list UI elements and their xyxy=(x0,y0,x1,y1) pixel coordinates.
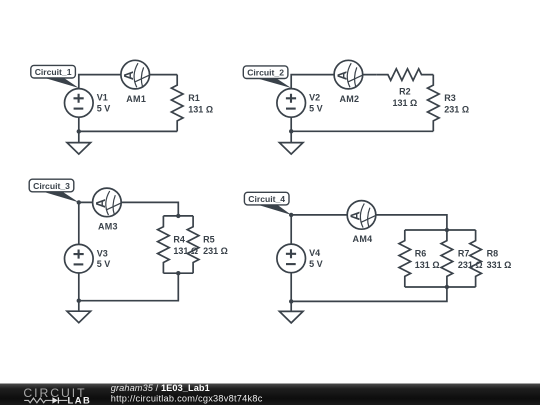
svg-text:AM4: AM4 xyxy=(353,234,373,244)
svg-text:V2: V2 xyxy=(309,93,320,103)
svg-text:231 Ω: 231 Ω xyxy=(203,246,228,256)
svg-text:R4: R4 xyxy=(173,235,185,245)
svg-text:Circuit_3: Circuit_3 xyxy=(33,181,70,191)
AM3 label xyxy=(98,222,118,232)
ground: circuit 2 xyxy=(279,131,303,154)
V4 labels: V4 5 V xyxy=(309,248,323,269)
resistor R8 xyxy=(470,230,482,287)
logo resistor zigzag and diode xyxy=(24,397,67,403)
svg-text:R5: R5 xyxy=(203,235,215,245)
V3 labels: V3 5 V xyxy=(97,248,111,269)
node: circuit 3 bank bottom junction dot xyxy=(176,271,180,275)
wire: circuit 3 V3 branch xyxy=(78,202,80,300)
wire: circuit 4 V4 branch xyxy=(290,215,292,302)
node: circuit 3 ground junction dot xyxy=(77,299,81,303)
AM2 label xyxy=(339,94,359,104)
svg-text:AM2: AM2 xyxy=(339,94,359,104)
wire: circuit 3 parallel top rail xyxy=(163,215,193,217)
svg-text:5 V: 5 V xyxy=(97,259,111,269)
svg-text:AM3: AM3 xyxy=(98,222,118,232)
node: circuit 4 flag node dot xyxy=(289,213,293,217)
node: circuit 2 ground junction dot xyxy=(289,129,293,133)
wire: circuit 1 bottom rail V1- to R1 xyxy=(79,117,177,131)
node flag Circuit_3 xyxy=(29,179,79,202)
voltage source V1 xyxy=(65,89,94,118)
V2 labels: V2 5 V xyxy=(309,93,323,114)
resistor R2 (horizontal) xyxy=(376,69,433,81)
svg-text:Circuit_1: Circuit_1 xyxy=(35,67,72,77)
svg-text:131 Ω: 131 Ω xyxy=(173,246,198,256)
voltage source V2 xyxy=(277,89,306,118)
footer url text xyxy=(111,393,263,403)
svg-text:5 V: 5 V xyxy=(309,259,323,269)
voltage source V3 xyxy=(65,244,94,273)
svg-text:AM1: AM1 xyxy=(126,94,146,104)
ground: circuit 1 xyxy=(67,131,91,154)
ammeter AM4 xyxy=(347,201,376,230)
svg-text:R2: R2 xyxy=(399,86,411,96)
resistor R6 xyxy=(399,230,411,287)
ammeter AM3 xyxy=(93,188,122,217)
wire: circuit 3 top rail node to parallel bank xyxy=(79,202,179,216)
logo text CIRCUIT xyxy=(23,386,86,400)
resistor R7 labels: R7 231 ohm xyxy=(458,248,483,270)
svg-text:V1: V1 xyxy=(97,93,108,103)
svg-text:131 Ω: 131 Ω xyxy=(415,260,440,270)
ground: circuit 3 xyxy=(67,300,91,323)
svg-text:5 V: 5 V xyxy=(97,103,111,113)
svg-text:5 V: 5 V xyxy=(309,103,323,113)
V1 labels: V1 5 V xyxy=(97,93,111,114)
node: circuit 1 ground junction dot xyxy=(77,129,81,133)
resistor R5 xyxy=(187,216,199,273)
resistor R4 xyxy=(158,216,170,273)
node flag Circuit_1 xyxy=(31,65,79,88)
svg-text:231 Ω: 231 Ω xyxy=(458,260,483,270)
svg-text:R1: R1 xyxy=(188,93,200,103)
resistor R3 labels: R3 231 ohm xyxy=(444,93,469,115)
AM4 label xyxy=(353,234,373,244)
ground: circuit 4 xyxy=(279,300,303,323)
resistor R1 xyxy=(171,75,183,132)
svg-text:131 Ω: 131 Ω xyxy=(188,105,213,115)
ammeter AM1 xyxy=(121,60,150,89)
wire: circuit 1 top rail V1+ to R1 xyxy=(79,75,177,89)
AM1 label xyxy=(126,94,146,104)
svg-text:R8: R8 xyxy=(487,248,499,258)
svg-text:V3: V3 xyxy=(97,248,108,258)
resistor R8 labels: R8 331 ohm xyxy=(487,248,512,270)
svg-text:graham35 / 1E03_Lab1: graham35 / 1E03_Lab1 xyxy=(111,383,210,393)
node: circuit 4 bank bottom junction dot xyxy=(445,285,449,289)
wire: circuit 4 bank to bottom rail xyxy=(291,287,447,301)
node: circuit 4 ground junction dot xyxy=(289,299,293,303)
svg-text:http://circuitlab.com/cgx38v8t: http://circuitlab.com/cgx38v8t74k8c xyxy=(111,393,263,403)
resistor R4 labels: R4 131 ohm xyxy=(173,235,198,257)
resistor R3 xyxy=(428,75,440,132)
ammeter AM2 xyxy=(334,60,363,89)
resistor R7 xyxy=(441,230,453,287)
node: circuit 4 bank top junction dot xyxy=(445,228,449,232)
svg-text:R3: R3 xyxy=(444,93,456,103)
resistor R6 labels: R6 131 ohm xyxy=(415,248,440,270)
node: circuit 3 flag node dot xyxy=(77,200,81,204)
wire: circuit 4 parallel top rail xyxy=(405,229,476,231)
svg-text:231 Ω: 231 Ω xyxy=(444,105,469,115)
resistor R1 labels: R1 131 ohm xyxy=(188,93,213,115)
wire: circuit 4 top rail node to parallel bank xyxy=(291,215,447,230)
footer title: graham35 / 1E03_Lab1 xyxy=(111,383,210,393)
svg-text:Circuit_2: Circuit_2 xyxy=(247,68,284,78)
node: circuit 3 bank top junction dot xyxy=(176,214,180,218)
svg-text:V4: V4 xyxy=(309,248,320,258)
wire: circuit 4 parallel bottom rail xyxy=(405,286,476,288)
wire: circuit 3 parallel bottom rail xyxy=(163,272,193,274)
svg-text:LAB: LAB xyxy=(68,394,92,405)
svg-text:R6: R6 xyxy=(415,248,427,258)
wire: circuit 2 top rail V2+ through AM2 to R2 xyxy=(291,75,376,89)
node flag Circuit_2 xyxy=(243,66,291,88)
resistor R2 labels: R2 131 ohm xyxy=(393,86,418,108)
svg-text:R7: R7 xyxy=(458,248,470,258)
wire: circuit 2 bottom rail xyxy=(291,117,433,131)
svg-text:131 Ω: 131 Ω xyxy=(393,98,418,108)
logo text LAB xyxy=(68,394,92,405)
voltage source V4 xyxy=(277,244,306,273)
svg-text:Circuit_4: Circuit_4 xyxy=(248,194,285,204)
resistor R5 labels: R5 231 ohm xyxy=(203,235,228,257)
node flag Circuit_4 xyxy=(244,192,291,215)
wire: circuit 3 bank to bottom rail xyxy=(79,273,179,301)
footer bar background xyxy=(0,384,540,405)
svg-text:331 Ω: 331 Ω xyxy=(487,260,512,270)
